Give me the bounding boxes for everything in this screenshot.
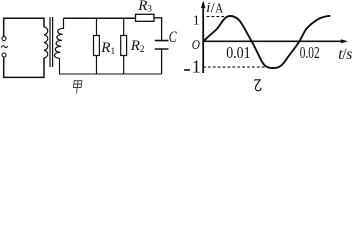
transformer secondary coil xyxy=(54,18,63,58)
wire: R1 branch xyxy=(96,18,98,74)
label yi (乙) xyxy=(254,80,261,91)
dashed line +1 xyxy=(207,16,229,18)
svg-text:0.01: 0.01 xyxy=(226,43,250,62)
svg-text:1: 1 xyxy=(192,57,201,77)
svg-text:R: R xyxy=(100,40,110,56)
svg-text:A: A xyxy=(215,1,223,16)
svg-text:O: O xyxy=(192,38,200,53)
AC source terminal 1 xyxy=(2,37,6,41)
wire: R2 branch xyxy=(123,18,125,74)
svg-text:1: 1 xyxy=(111,47,116,57)
wire: primary loop bottom xyxy=(4,57,44,77)
svg-text:s: s xyxy=(346,46,352,63)
wire: secondary top xyxy=(64,17,136,19)
svg-text:R: R xyxy=(130,38,140,54)
svg-text:C: C xyxy=(169,29,177,46)
svg-text:2: 2 xyxy=(140,45,145,55)
wire: capacitor to bottom xyxy=(161,49,163,74)
resistor R3 xyxy=(136,14,155,21)
graph x-axis xyxy=(203,40,346,42)
label jia (甲) xyxy=(73,81,82,94)
current curve xyxy=(203,16,330,68)
transformer core xyxy=(50,17,53,67)
label -1 xyxy=(184,69,190,71)
svg-text:0.02: 0.02 xyxy=(300,43,320,62)
capacitor C plates xyxy=(155,41,169,49)
resistor R2 xyxy=(121,36,127,56)
wire: R3 to capacitor xyxy=(154,18,162,41)
wire: secondary bottom xyxy=(60,58,162,74)
dashed line -1 xyxy=(203,66,270,68)
transformer primary coil xyxy=(44,27,48,58)
graph y-axis xyxy=(202,3,204,73)
wire: primary loop top xyxy=(4,18,44,36)
AC source tilde xyxy=(1,46,7,48)
resistor R1 xyxy=(94,36,100,56)
AC source terminal 2 xyxy=(2,53,6,57)
svg-text:R: R xyxy=(137,0,147,14)
svg-text:3: 3 xyxy=(147,5,152,15)
svg-text:1: 1 xyxy=(193,13,200,28)
